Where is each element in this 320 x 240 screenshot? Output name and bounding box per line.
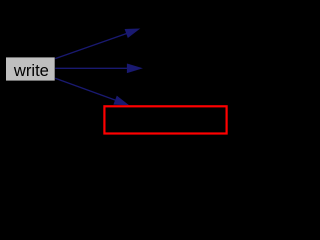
svg-text:write: write <box>13 61 49 80</box>
